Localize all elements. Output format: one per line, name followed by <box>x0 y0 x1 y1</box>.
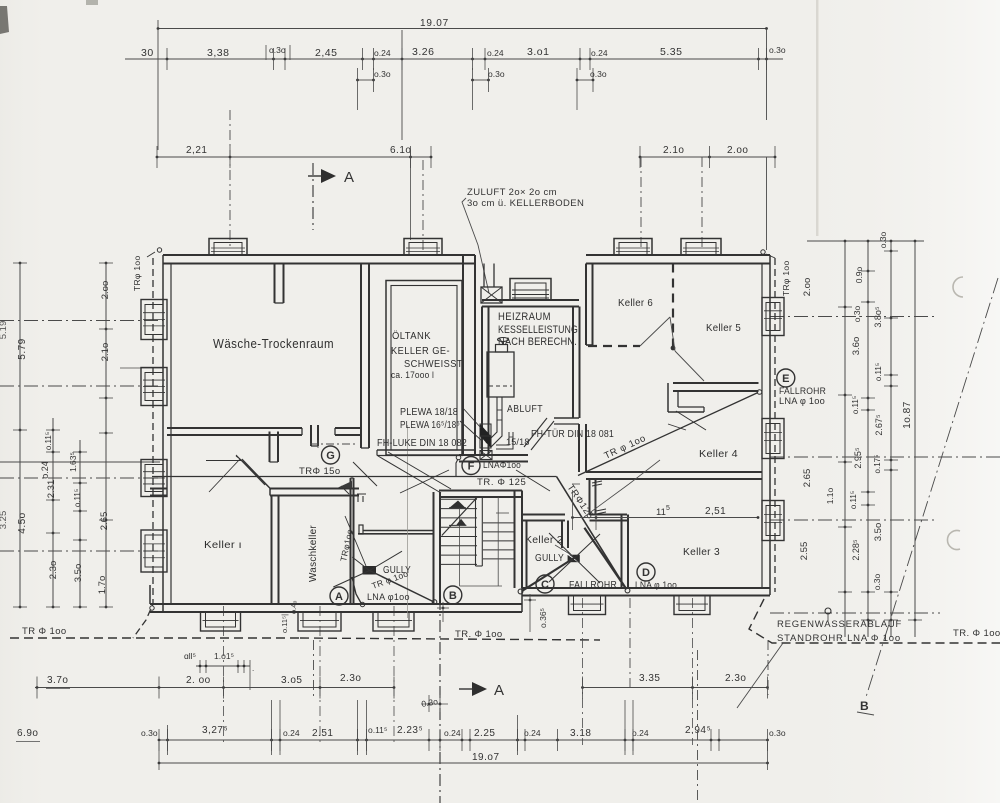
pipe gully A to stair wall <box>370 571 434 602</box>
dimension row 2 (2.21 / 6.10 / 2.10 / 2.00) <box>157 156 431 158</box>
svg-text:2.65: 2.65 <box>802 469 813 488</box>
svg-text:3o cm ü. KELLERBODEN: 3o cm ü. KELLERBODEN <box>467 198 584 209</box>
section arrow A top <box>312 163 314 230</box>
node E <box>777 369 795 387</box>
punch hole lower <box>947 531 960 550</box>
svg-text:5.19: 5.19 <box>0 321 9 340</box>
svg-text:3.6o: 3.6o <box>851 337 862 356</box>
bottom vertical extension lines <box>313 640 315 700</box>
svg-text:o.24: o.24 <box>374 48 391 58</box>
leader wedge at F <box>400 470 449 493</box>
svg-text:B: B <box>449 590 457 602</box>
svg-text:3.o5: 3.o5 <box>281 675 302 686</box>
wall: stairwell top <box>439 490 522 492</box>
leader wedge Oeltank door <box>378 456 441 493</box>
window niche right 2 <box>762 419 784 459</box>
Heizraum chimney bump <box>510 279 551 301</box>
window niche bottom 1 <box>201 612 241 631</box>
svg-text:A: A <box>335 591 343 603</box>
duct elbow to flue <box>496 432 509 445</box>
svg-text:D: D <box>642 567 650 579</box>
window niche right 3 <box>762 501 784 541</box>
svg-text:Keller 2: Keller 2 <box>525 534 563 546</box>
exterior wall: left <box>162 255 164 612</box>
svg-text:0.9o: 0.9o <box>854 266 864 283</box>
svg-text:2.1o: 2.1o <box>100 343 111 362</box>
svg-text:15/18: 15/18 <box>506 437 530 447</box>
svg-text:o.3o: o.3o <box>872 573 882 590</box>
node B <box>444 586 462 604</box>
svg-text:TR Φ 1oo: TR Φ 1oo <box>22 626 67 637</box>
svg-text:ɑll⁵: ɑll⁵ <box>184 651 196 661</box>
svg-text:FH-TÜR DIN 18 081: FH-TÜR DIN 18 081 <box>531 428 614 440</box>
svg-text:GULLY: GULLY <box>383 565 411 576</box>
svg-text:o.4₀: o.4₀ <box>289 600 298 614</box>
section arrow A bottom <box>439 598 441 803</box>
node A <box>330 587 348 605</box>
wall: Waschkeller right <box>350 478 352 604</box>
svg-text:C: C <box>541 579 549 591</box>
wall: corridor/landing divider <box>363 530 434 532</box>
node G <box>322 446 340 464</box>
chimney block top 2 <box>404 239 442 256</box>
door diagonal Oeltank luke <box>353 462 377 486</box>
svg-text:A: A <box>344 169 354 186</box>
svg-text:2.51: 2.51 <box>312 728 333 739</box>
dimension chain row 1 <box>125 58 783 60</box>
svg-text:REGENWASSERABLAUF: REGENWASSERABLAUF <box>777 619 902 630</box>
bottom dashed pipe line TR100 <box>10 637 300 639</box>
fold crease <box>816 0 818 236</box>
svg-text:2.25: 2.25 <box>474 728 495 739</box>
wall: Keller3 left <box>621 515 623 589</box>
svg-text:KELLER GE-: KELLER GE- <box>391 345 450 357</box>
bottom-right dashed rainwater line <box>749 599 1000 643</box>
svg-text:o.11⁵: o.11⁵ <box>44 432 53 450</box>
svg-text:3.35: 3.35 <box>639 673 660 684</box>
chimney block top 3 <box>614 239 652 256</box>
svg-text:2.1o: 2.1o <box>663 145 684 156</box>
svg-text:o.11⁵: o.11⁵ <box>368 725 387 735</box>
chimney block top 1 <box>209 239 247 256</box>
exterior wall: right <box>769 255 771 595</box>
svg-text:SCHWEISST: SCHWEISST <box>404 358 463 370</box>
svg-text:3.o1: 3.o1 <box>527 46 549 58</box>
stair stringer <box>475 498 477 566</box>
main TR125 pipe horizontal <box>152 476 557 478</box>
node C <box>536 575 554 593</box>
small pipe crossing marks <box>341 486 349 494</box>
svg-text:NACH BERECHN.: NACH BERECHN. <box>498 336 577 348</box>
exterior wall: top (left section) <box>163 254 475 256</box>
door swing Keller4 top <box>676 411 706 430</box>
svg-text:19.o7: 19.o7 <box>472 752 500 763</box>
svg-text:1.7o: 1.7o <box>97 576 108 595</box>
door line Keller1 <box>206 460 242 462</box>
punch hole upper <box>953 277 963 297</box>
wall: Oeltank bottom <box>377 449 475 451</box>
wall: Trockenraum / Oeltank divider <box>360 264 362 449</box>
svg-text:ZULUFT 2o× 2o cm: ZULUFT 2o× 2o cm <box>467 187 557 198</box>
wall: corridor right / Keller4 left <box>578 424 580 472</box>
sub dimensions 0.30 row <box>358 79 374 81</box>
wall: Keller3 top <box>590 514 628 516</box>
svg-text:Waschkeller: Waschkeller <box>308 525 319 582</box>
partition Keller6 dashed bottom <box>588 345 640 347</box>
svg-text:2.3o: 2.3o <box>725 673 746 684</box>
svg-text:E: E <box>782 373 789 385</box>
svg-text:30: 30 <box>141 47 154 59</box>
keller3 dimension 11.5/2.51 <box>573 517 759 519</box>
svg-text:5: 5 <box>666 505 670 512</box>
dimension row: overall 19.07 (top) <box>157 28 767 30</box>
window niche left 3 <box>141 460 167 497</box>
stair guide lines <box>459 507 461 586</box>
stair direction arrows <box>449 501 465 508</box>
svg-text:TR. Φ 125: TR. Φ 125 <box>477 477 526 488</box>
svg-text:HEIZRAUM: HEIZRAUM <box>498 311 551 323</box>
svg-text:STANDROHR LNA Φ 1oo: STANDROHR LNA Φ 1oo <box>777 633 901 644</box>
svg-text:3.26: 3.26 <box>412 46 434 58</box>
svg-text:2.oo: 2.oo <box>802 278 813 297</box>
svg-text:ABLUFT: ABLUFT <box>507 404 543 415</box>
svg-text:o.24: o.24 <box>632 728 649 738</box>
svg-text:Keller 5: Keller 5 <box>706 322 741 334</box>
window niche right 1 <box>762 298 784 336</box>
vent shaft X-box at Zuluft <box>481 287 502 303</box>
window niche bottom 2 <box>298 612 341 631</box>
svg-text:o.24: o.24 <box>591 48 608 58</box>
svg-text:o.3o: o.3o <box>878 231 888 248</box>
leader zigzag at Keller6 partition <box>640 317 670 346</box>
partition Keller6/Keller5 dashed <box>672 264 674 350</box>
svg-text:FALLROHR: FALLROHR <box>569 580 617 591</box>
svg-text:FH-LUKE DIN 18 082: FH-LUKE DIN 18 082 <box>377 438 467 449</box>
svg-text:2.94⁵: 2.94⁵ <box>685 725 711 736</box>
svg-text:Keller 6: Keller 6 <box>618 297 653 309</box>
door swing Trockenraum <box>242 459 271 489</box>
svg-text:o.3o: o.3o <box>769 45 786 55</box>
svg-text:2.oo: 2.oo <box>100 281 111 300</box>
svg-text:PLEWA 18/18: PLEWA 18/18 <box>400 407 458 418</box>
crease line faint <box>407 425 409 618</box>
svg-text:ca. 17ooo l: ca. 17ooo l <box>391 370 434 380</box>
svg-text:TRφ 1oo: TRφ 1oo <box>132 256 142 292</box>
svg-text:o.24: o.24 <box>444 728 461 738</box>
svg-text:o.11⁵: o.11⁵ <box>849 491 858 509</box>
svg-text:A: A <box>494 682 504 699</box>
svg-text:3.5o: 3.5o <box>873 523 884 542</box>
svg-text:6.1o: 6.1o <box>390 145 411 156</box>
gully Waschkeller X symbol <box>363 566 377 575</box>
svg-text:3.7o: 3.7o <box>47 675 68 686</box>
TR100 long diagonal (to Keller4) <box>578 393 758 476</box>
pipe junction at F <box>456 459 458 477</box>
svg-text:o.3o: o.3o <box>769 728 786 738</box>
svg-text:o.11⁵|: o.11⁵| <box>280 614 289 633</box>
svg-text:2.3o: 2.3o <box>340 673 361 684</box>
Abluft duct <box>486 397 497 443</box>
svg-text:o.24: o.24 <box>524 728 541 738</box>
fallrohr thick pipe to D corner <box>584 528 626 590</box>
bottom dimension row 1 <box>35 687 394 689</box>
exterior wall: top (right section) <box>586 254 770 256</box>
leader V below TR100 label <box>584 484 629 517</box>
svg-text:3.18: 3.18 <box>570 728 591 739</box>
svg-text:o.3o: o.3o <box>374 69 391 79</box>
flue block: black triangles <box>480 424 491 436</box>
staircase treads <box>441 498 477 500</box>
wall: Keller6 left <box>585 264 587 346</box>
svg-text:KESSELLEISTUNG: KESSELLEISTUNG <box>498 324 578 336</box>
dashed service pipe left exterior <box>133 258 153 638</box>
svg-text:o.3o: o.3o <box>488 69 505 79</box>
leader Keller2 to gully <box>555 545 573 556</box>
svg-text:LNA φ1oo: LNA φ1oo <box>367 592 410 602</box>
svg-text:LNAΦ1oo: LNAΦ1oo <box>483 460 521 471</box>
wall: stairwell left <box>433 492 435 604</box>
right vertical dimension chains <box>844 240 846 637</box>
wall: Oeltank right <box>462 255 464 455</box>
dash-dot tick left of G <box>310 443 355 445</box>
exterior wall: bottom left section <box>150 603 440 605</box>
svg-text:B: B <box>860 699 869 713</box>
PLEWA leader lines <box>462 407 481 428</box>
right axis lines <box>770 316 935 318</box>
exterior wall: bottom right section <box>522 587 770 589</box>
pipe crossing ticks near landing <box>357 496 359 502</box>
bottom dimension row 2 <box>159 739 768 741</box>
svg-text:LNA φ 1oo: LNA φ 1oo <box>779 396 825 406</box>
wall: Keller4 / Keller3 <box>586 471 762 473</box>
svg-text:TR. Φ 1oo: TR. Φ 1oo <box>455 629 503 640</box>
left axis lines <box>0 320 163 322</box>
small tick marks pipes <box>592 481 602 483</box>
node D <box>637 563 655 581</box>
svg-text:2,51: 2,51 <box>705 506 726 517</box>
wall: Keller1 top <box>150 488 167 490</box>
svg-text:o.24: o.24 <box>283 728 300 738</box>
left vertical dimension chains <box>19 263 21 607</box>
svg-text:1.1o: 1.1o <box>825 487 835 504</box>
exterior wall: bottom stair section <box>440 603 522 605</box>
svg-text:LNA φ 1oo: LNA φ 1oo <box>635 580 677 591</box>
flue X-box <box>480 451 492 460</box>
chimney block top 4 <box>681 239 721 256</box>
window niche bottom 3 <box>373 612 414 631</box>
svg-text:19.07: 19.07 <box>420 18 449 29</box>
svg-text:F: F <box>468 460 475 472</box>
vent duct above X-box <box>483 264 485 288</box>
TR125 pipe diagonal to gully K2 <box>557 477 627 590</box>
node F <box>462 457 480 475</box>
svg-text:3,38: 3,38 <box>207 47 229 59</box>
svg-text:o.3o: o.3o <box>141 728 158 738</box>
wall: Heizraum left <box>481 307 483 456</box>
svg-text:ÖLTANK: ÖLTANK <box>392 330 431 342</box>
svg-text:2.oo: 2.oo <box>727 145 748 156</box>
wall: Keller4 left return <box>667 383 669 412</box>
elbow pipe along waschkeller wall <box>352 577 361 603</box>
svg-text:o.3o: o.3o <box>269 45 286 55</box>
svg-text:.: . <box>252 664 254 673</box>
dashed service pipe right exterior <box>774 258 776 592</box>
svg-text:11: 11 <box>656 507 666 518</box>
svg-text:5.79: 5.79 <box>17 338 28 359</box>
bottom total 19.07 row <box>159 762 768 764</box>
svg-text:2. oo: 2. oo <box>186 675 211 686</box>
svg-text:o.3o: o.3o <box>852 305 862 322</box>
svg-text:2,21: 2,21 <box>186 145 207 156</box>
wall: Keller2 top <box>522 514 565 516</box>
window niche left 1 <box>141 300 167 340</box>
svg-text:3,27⁵: 3,27⁵ <box>202 725 228 736</box>
wall: jog Keller3 left upper <box>589 479 591 515</box>
svg-text:3.25: 3.25 <box>0 511 9 530</box>
wall: Heizraum right <box>572 307 574 419</box>
leader from G corridor to gully <box>345 516 366 566</box>
standpipe symbol <box>825 608 831 614</box>
svg-text:o.11⁵: o.11⁵ <box>851 396 860 414</box>
window niche left 4 <box>141 530 167 572</box>
svg-text:TR. Φ 1oo: TR. Φ 1oo <box>953 628 1000 639</box>
window niche bottom 4 (right section) <box>569 596 606 615</box>
wall: Keller5 / Keller4 <box>673 382 759 384</box>
svg-text:o.24: o.24 <box>487 48 504 58</box>
wall: Keller2 left <box>521 521 523 589</box>
svg-text:o.36⁵: o.36⁵ <box>538 608 548 628</box>
window niche bottom 5 (right section) <box>674 596 710 615</box>
svg-text:2.95⁵: 2.95⁵ <box>853 447 863 469</box>
wall: Keller2 right stub <box>561 521 563 549</box>
svg-text:o.3o: o.3o <box>590 69 607 79</box>
svg-text:o.24: o.24 <box>40 461 50 479</box>
wall: stairwell right <box>514 491 516 589</box>
svg-text:6.9o: 6.9o <box>17 728 38 739</box>
svg-text:TRΦ 15o: TRΦ 15o <box>299 466 341 477</box>
wall stub x311 <box>310 425 312 446</box>
leader arrowhead near pipe <box>337 481 352 488</box>
wall: Keller1 / Waschkeller divider <box>271 496 273 605</box>
gully Keller2 X symbol <box>568 555 580 563</box>
svg-text:o.11⁵: o.11⁵ <box>73 489 82 507</box>
window niche left 2 <box>141 368 167 406</box>
svg-text:o.11⁵: o.11⁵ <box>874 363 883 381</box>
svg-text:2.31: 2.31 <box>46 480 57 499</box>
svg-text:Keller 4: Keller 4 <box>699 448 738 460</box>
svg-text:1o.87: 1o.87 <box>902 401 913 429</box>
svg-text:Keller 3: Keller 3 <box>683 546 720 558</box>
wall: Heizraum bottom + corridor <box>459 454 528 456</box>
svg-text:1.o1⁵: 1.o1⁵ <box>214 651 234 661</box>
svg-text:3.5o: 3.5o <box>73 564 84 583</box>
wall: Trockenraum bottom <box>167 427 302 429</box>
stair diagonal <box>442 498 477 536</box>
oil tank (double rectangle) <box>386 281 462 456</box>
svg-text:2,45: 2,45 <box>315 47 337 59</box>
boiler in Heizraum <box>487 352 514 397</box>
svg-text:Keller ı: Keller ı <box>204 539 242 551</box>
wall: Trockenraum top stub <box>274 264 276 304</box>
svg-text:5.35: 5.35 <box>660 46 682 58</box>
section line B diagonal <box>866 278 998 697</box>
svg-text:2.65: 2.65 <box>99 512 110 531</box>
svg-text:4.5o: 4.5o <box>17 512 28 533</box>
svg-text:TRφ 1oo: TRφ 1oo <box>781 261 791 297</box>
svg-text:2.55: 2.55 <box>799 542 810 561</box>
svg-text:2.28⁵: 2.28⁵ <box>851 539 861 561</box>
svg-text:Wäsche-Trockenraum: Wäsche-Trockenraum <box>213 337 334 351</box>
svg-text:G: G <box>326 450 335 462</box>
wall stub corridor G <box>269 432 271 463</box>
wall: Heizraum top <box>482 299 579 301</box>
fallrohr thick pipe to C <box>522 558 574 591</box>
svg-text:2.3o: 2.3o <box>48 561 59 580</box>
bottom small dim tick left of stair <box>442 607 445 610</box>
svg-text:2.67⁵: 2.67⁵ <box>874 414 884 436</box>
svg-text:GULLY: GULLY <box>535 553 564 564</box>
svg-text:PLEWA 16⁵/18⁵: PLEWA 16⁵/18⁵ <box>400 420 460 431</box>
door FH-TUER swing <box>531 421 554 450</box>
svg-text:2.23⁵: 2.23⁵ <box>397 725 423 736</box>
